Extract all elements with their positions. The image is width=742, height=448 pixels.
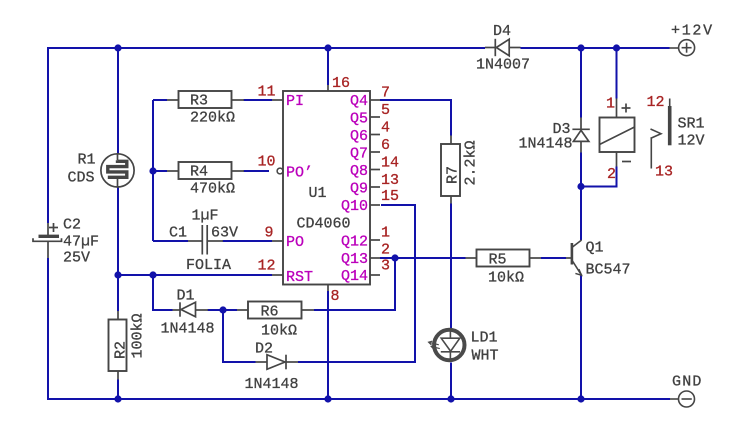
svg-text:R7: R7 [445,166,462,184]
node ground rail at Q1 emitter [577,395,584,402]
diode D3 [572,118,589,153]
svg-text:1: 1 [606,96,615,113]
wire C1 right to PO [223,240,273,242]
resistor R5 [466,250,542,267]
svg-text:Q4: Q4 [350,93,368,110]
svg-text:PO’: PO’ [286,165,313,182]
node ground rail at R2 [114,395,121,402]
op IC U1 CD4060 [272,85,380,291]
node RST at R1 rail [114,271,121,278]
svg-text:1N4148: 1N4148 [519,136,573,153]
svg-text:12: 12 [647,94,665,111]
svg-text:7: 7 [381,85,390,102]
svg-text:Q7: Q7 [350,146,368,163]
svg-text:12V: 12V [678,133,705,150]
node top rail at R1 branch [114,44,121,51]
svg-text:220kΩ: 220kΩ [190,110,235,127]
svg-text:63V: 63V [211,225,238,242]
transistor Q1 [566,240,582,275]
svg-text:8: 8 [331,288,340,305]
svg-text:10kΩ: 10kΩ [488,270,524,287]
svg-text:RST: RST [286,269,313,286]
svg-text:BC547: BC547 [586,262,631,279]
svg-text:2: 2 [381,242,390,259]
svg-text:1N4007: 1N4007 [476,57,530,74]
svg-text:11: 11 [258,84,276,101]
node ground rail at pin8 [324,395,331,402]
svg-text:47µF: 47µF [63,234,99,251]
wire pin16 drop [327,48,329,85]
wire RST drop to D1 [153,275,173,310]
svg-text:FOLIA: FOLIA [186,257,231,274]
node D1 cathode junction [219,306,226,313]
resistor R4 [167,162,244,179]
svg-text:Q13: Q13 [341,251,368,268]
node top rail at pin16 [324,44,331,51]
wire R1 branch top [117,48,119,154]
svg-text:U1: U1 [309,185,327,202]
svg-text:Q6: Q6 [350,128,368,145]
wire top rail right segment [521,47,670,49]
svg-text:1µF: 1µF [192,208,219,225]
wire R6 right up to Q13 [314,258,395,310]
diode D2 [256,355,299,370]
node ground rail at LED [447,395,454,402]
svg-text:3: 3 [381,258,390,275]
relay coil SR1 [600,99,635,167]
wire LED bottom [450,363,452,400]
svg-text:6: 6 [381,137,390,154]
wire oscillator left rail [152,100,154,241]
svg-text:Q10: Q10 [341,198,368,215]
svg-text:Q8: Q8 [350,163,368,180]
relay contact SR1 [651,99,670,169]
svg-text:Q9: Q9 [350,181,368,198]
wire top rail left segment [48,48,485,223]
svg-text:Q14: Q14 [341,268,368,285]
svg-text:Q12: Q12 [341,234,368,251]
svg-text:1N4148: 1N4148 [245,376,299,393]
svg-text:13: 13 [655,164,673,181]
wire D2 right up to Q10 [298,205,415,362]
svg-text:GND: GND [672,374,703,391]
node Q13 junction [391,254,398,261]
svg-text:LD1: LD1 [471,330,498,347]
svg-text:2: 2 [607,166,616,183]
capacitor C2 [33,223,62,258]
svg-text:Q1: Q1 [586,240,604,257]
wire D3 to Q1 collector [580,153,582,241]
svg-text:D4: D4 [493,23,511,40]
wire left rail lower [48,258,670,399]
resistor R3 [167,91,244,108]
wire R4 right to PO' bubble [244,170,270,172]
svg-text:13: 13 [381,172,399,189]
wire +12V branch to D3 [580,48,582,118]
capacitor C1 [188,225,223,255]
wire C1 left [153,240,188,242]
svg-text:16: 16 [332,75,350,92]
svg-text:470kΩ: 470kΩ [190,181,235,198]
svg-text:SR1: SR1 [678,116,705,133]
diode D4 [485,39,521,56]
LED LD1 [429,330,465,362]
wire R3 left [153,99,167,101]
diode D1 [173,302,209,316]
svg-text:4: 4 [381,120,390,137]
node top rail at relay branch [613,44,620,51]
svg-text:14: 14 [381,155,399,172]
wire R2 bottom [117,380,119,400]
svg-text:+12V: +12V [671,23,714,40]
svg-text:R1: R1 [78,152,96,169]
svg-text:PO: PO [286,234,304,251]
svg-text:10kΩ: 10kΩ [261,323,297,340]
resistor R6 [237,302,314,319]
wire relay pin1 [616,48,618,99]
wire relay pin2 to D3 junction [581,167,617,187]
svg-text:R2: R2 [113,341,130,359]
svg-text:R6: R6 [261,304,279,321]
svg-text:R5: R5 [489,252,507,269]
svg-text:R4: R4 [190,164,208,181]
wire D1 to R6 [208,309,238,311]
svg-text:CD4060: CD4060 [297,216,351,233]
wire R7 bottom to LED [450,204,452,329]
ground GND [670,391,695,407]
svg-text:WHT: WHT [472,348,499,365]
svg-text:9: 9 [265,225,274,242]
node RST at D1 drop [149,271,156,278]
svg-text:10: 10 [258,154,276,171]
svg-text:25V: 25V [63,250,90,267]
resistor R7 [441,136,460,204]
wire R1 to R2 [117,187,119,311]
svg-text:PI: PI [286,93,304,110]
svg-text:C2: C2 [63,217,81,234]
svg-text:1: 1 [381,225,390,242]
wire Q13 row to R5 [380,257,466,259]
svg-text:15: 15 [381,188,399,205]
wire R4 left [153,170,167,172]
wire R3 right to PI [244,99,273,101]
photoresistor R1 [101,154,134,187]
svg-text:5: 5 [381,102,390,119]
svg-text:100kΩ: 100kΩ [130,313,147,358]
svg-text:12: 12 [258,258,276,275]
node R4 left junction [149,167,156,174]
wire D1 junction down to D2 [223,310,256,362]
svg-text:D2: D2 [255,341,273,358]
svg-text:R3: R3 [190,93,208,110]
wire RST row [117,274,272,276]
svg-text:CDS: CDS [68,170,95,187]
svg-text:D1: D1 [177,288,195,305]
wire R5 to Q1 base [541,257,566,259]
wire Q4 row to R7 [380,100,451,136]
node top rail at D3 branch [577,44,584,51]
svg-text:Q5: Q5 [350,111,368,128]
wire pin8 drop to ground rail [327,291,329,399]
resistor R2 [109,311,127,380]
power +12V [670,40,695,56]
svg-text:1N4148: 1N4148 [161,321,215,338]
wire Q1 emitter to ground rail [580,276,582,400]
svg-text:C1: C1 [169,225,187,242]
svg-text:2.2kΩ: 2.2kΩ [463,140,480,185]
node relay pin2 / D3 junction [577,183,584,190]
